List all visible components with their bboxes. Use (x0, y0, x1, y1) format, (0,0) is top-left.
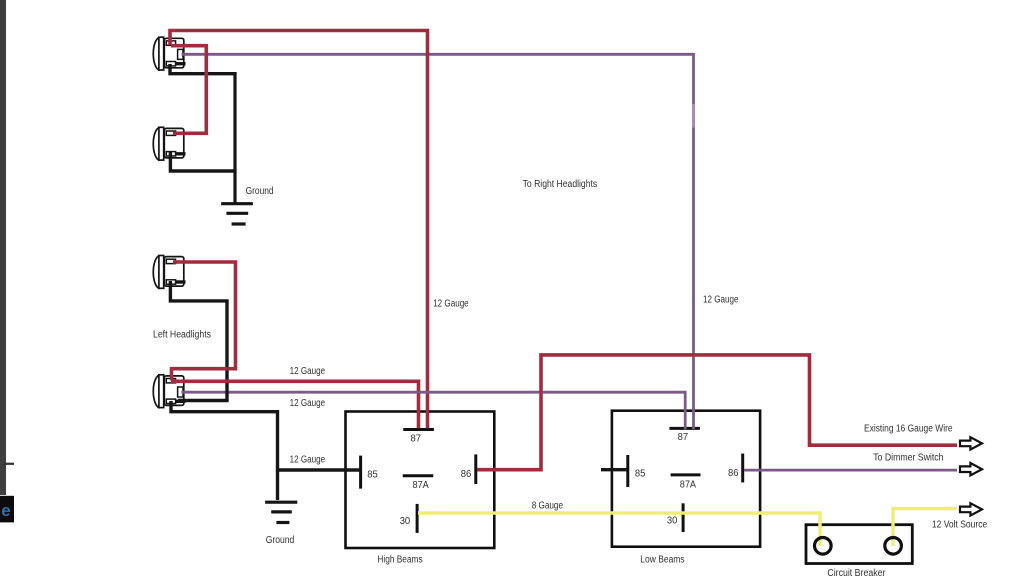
left sidebar strip (0, 0, 6, 495)
svg-text:30: 30 (667, 516, 678, 527)
headlight LP4 (left outer high/low) (153, 375, 185, 408)
wire red: headlight LP1 high-beam feed to High Beams relay pin 87 (170, 31, 428, 429)
svg-text:To Dimmer Switch: To Dimmer Switch (873, 452, 943, 463)
svg-text:12 Volt Source: 12 Volt Source (932, 520, 988, 531)
svg-text:12 Gauge: 12 Gauge (290, 366, 326, 377)
ground symbol G1 (221, 204, 253, 224)
svg-text:87: 87 (411, 434, 422, 445)
wire black: headlight LP2 ground drop (170, 152, 236, 171)
svg-text:85: 85 (635, 468, 646, 479)
svg-text:Existing 16 Gauge Wire: Existing 16 Gauge Wire (864, 424, 953, 435)
svg-text:30: 30 (400, 516, 411, 527)
ground symbol G2 (265, 502, 297, 522)
wire red: High Beams pin 86 to existing 16 gauge wire arrow (477, 355, 957, 470)
svg-text:12 Gauge: 12 Gauge (290, 455, 326, 466)
relay K1 pin 30 (416, 504, 419, 533)
wire black: headlight LP1 ground drop (170, 64, 237, 74)
circuit breaker terminal right (885, 538, 902, 555)
circuit breaker CB1 box (806, 525, 912, 564)
relay K2 Low Beams box (612, 411, 760, 547)
wire black: headlight LP3 ground to headlight LP4 (170, 281, 227, 401)
relay K1 pin 87A (403, 474, 434, 477)
svg-text:12 Gauge: 12 Gauge (290, 398, 326, 409)
headlight LP2 (left inner high) (153, 127, 185, 160)
svg-text:85: 85 (367, 469, 378, 480)
circuit breaker terminal left (815, 538, 832, 555)
IE icon tile (0, 496, 14, 523)
svg-text:86: 86 (728, 468, 739, 479)
headlight LP3 (left outer high) (153, 256, 185, 289)
wire purple 12 gauge: headlight LP4 low-beam segment (182, 391, 301, 394)
svg-text:86: 86 (461, 469, 472, 480)
svg-text:To Right Headlights: To Right Headlights (523, 179, 598, 190)
wire red: headlight LP3 to headlight LP4 jumper (172, 262, 236, 381)
relay K1 High Beams box (346, 412, 495, 549)
wire purple: faded overlap segment on riser (692, 104, 694, 128)
svg-text:12 Gauge: 12 Gauge (703, 294, 739, 305)
svg-text:87A: 87A (680, 479, 696, 490)
wire red: headlight LP1 to headlight LP2 jumper (171, 46, 206, 134)
wire purple 12 gauge: run to Low Beams relay pin 87 (299, 392, 685, 429)
wire purple: headlight LP1 low-beam to Low Beams relay pin 87 (to right headlights) (182, 54, 694, 429)
wire black: ground bus to ground symbol G1 (233, 72, 236, 203)
relay K2 pin 87A (671, 473, 701, 476)
svg-text:Circuit Breaker: Circuit Breaker (827, 568, 886, 576)
relay K1 pin 86 (474, 454, 477, 484)
wire purple: Low Beams pin 86 to dimmer switch arrow (744, 469, 957, 472)
wire yellow: circuit breaker to 12 volt source arrow (893, 509, 957, 547)
svg-text:e: e (1, 501, 10, 520)
svg-text:12 Gauge: 12 Gauge (433, 299, 469, 310)
connector arrow A3 (12 volt source) (960, 503, 982, 515)
wire black: headlight LP4 ground run to ground symbol G2 (171, 401, 278, 500)
svg-text:87: 87 (678, 432, 689, 443)
wire black 12 gauge: ground branch to High Beams pin 85 (278, 468, 360, 471)
relay K2 pin 87 (669, 427, 700, 430)
relay K1 pin 85 (359, 456, 362, 489)
connector arrow A1 (existing 16 gauge wire) (960, 437, 982, 449)
wire black: Low Beams pin 85 stub (601, 468, 627, 471)
svg-text:Left Headlights: Left Headlights (153, 330, 211, 341)
connector arrow A2 (to dimmer switch) (960, 463, 982, 475)
svg-text:Ground: Ground (246, 186, 274, 197)
svg-text:Low Beams: Low Beams (640, 554, 684, 565)
wire red 12 gauge: headlight LP4 to High Beams relay pin 87 (171, 381, 419, 428)
relay K1 pin 87 (403, 428, 434, 431)
relay K2 pin 30 (682, 503, 685, 532)
wire yellow 8 gauge: High Beams pin 30 through Low Beams pin 30 to circuit breaker (418, 513, 820, 546)
svg-text:High Beams: High Beams (377, 554, 422, 565)
headlight LP1 (left inner high/low) (153, 37, 185, 70)
svg-text:Ground: Ground (266, 535, 295, 546)
svg-text:87A: 87A (413, 480, 429, 491)
relay K2 pin 86 (741, 454, 744, 483)
sidebar tick mark (4, 463, 14, 465)
relay K2 pin 85 (626, 455, 629, 487)
svg-text:8 Gauge: 8 Gauge (532, 501, 564, 512)
